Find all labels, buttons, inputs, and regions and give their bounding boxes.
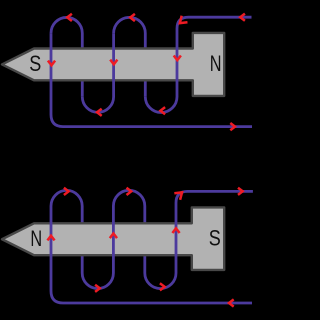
svg-text:S: S [29, 52, 41, 76]
current arrow on front strand 1 (down) [48, 61, 55, 66]
current arrow on bottom lead (right) [230, 123, 235, 130]
current arrow at top-right bend (up-right) [174, 189, 185, 200]
svg-text:S: S [209, 227, 221, 251]
wire: top lead with bend into coil front strand 3 and bottom U-bend [145, 191, 253, 288]
current arrow on U-bend 1 (left) [97, 109, 102, 116]
current arrow on U-bend 2 (right) [160, 283, 165, 290]
current arrow on arc 2 apex (right) [126, 188, 131, 195]
label S pole [29, 52, 41, 76]
wire: coil front strand 1 with bend into bottom lead [51, 206, 252, 303]
current arrow on U-bend 2 (left) [160, 107, 165, 114]
wire: coil front strand 2 with bottom U-bend [82, 206, 113, 289]
current arrow on front strand 2 (down) [110, 60, 117, 65]
wire: coil back strand of loop 2 with top arc to front strand 1 [51, 190, 82, 273]
current arrow on top lead (left) [240, 14, 245, 21]
magnet: pointed bar with pole block (N left, S right) [2, 207, 224, 270]
wire: coil front strand 2 with bottom U-bend [82, 33, 113, 112]
current arrow on arc 1 apex (right) [64, 188, 69, 195]
label N pole [30, 227, 42, 252]
current arrow at top-right bend (down-left) [177, 16, 188, 27]
wire: coil front strand 1 with bend into bottom lead [51, 33, 252, 127]
wire: coil back strand of loop 3 with top arc to front strand 2 [114, 17, 146, 96]
magnet: pointed bar with pole block (S left, N right) [2, 33, 224, 96]
wire: coil back strand of loop 2 with top arc to front strand 1 [51, 17, 82, 96]
current arrow on arc 1 apex (left) [67, 14, 72, 21]
current arrow on U-bend 1 (right) [95, 285, 100, 292]
current arrow on front strand 1 (up) [47, 236, 54, 241]
current arrow on front strand 3 (up) [172, 228, 179, 233]
current arrow on top lead (right) [238, 188, 243, 195]
wire: coil back strand of loop 3 with top arc to front strand 2 [113, 190, 144, 273]
label N pole [210, 52, 222, 77]
label S pole [209, 227, 221, 251]
current arrow on front strand 2 (up) [110, 233, 117, 238]
wire: top lead with bend into coil front strand 3 and bottom U-bend [145, 17, 251, 112]
current arrow on bottom lead (left) [229, 299, 234, 306]
current arrow on arc 2 apex (left) [130, 14, 135, 21]
svg-text:N: N [210, 52, 222, 77]
svg-text:N: N [30, 227, 42, 252]
current arrow on front strand 3 (down) [174, 56, 181, 61]
